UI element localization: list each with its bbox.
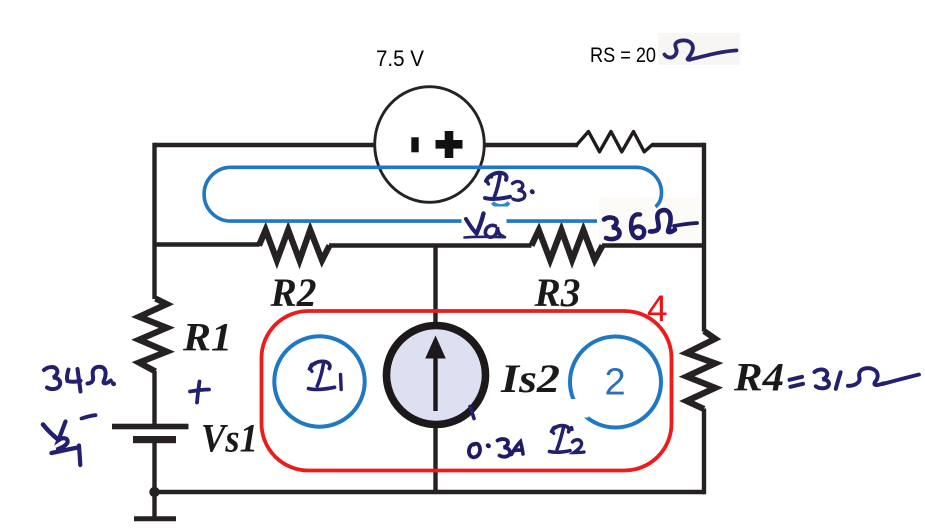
current source Is2 (387, 326, 486, 425)
wire right vertical lower (702, 409, 706, 495)
resistor R2 (259, 230, 330, 260)
svg-text:R3: R3 (534, 270, 581, 315)
handwritten V1 (bottom left) (43, 415, 96, 465)
svg-text:7.5 V: 7.5 V (376, 46, 424, 71)
svg-text:RS = 20: RS = 20 (590, 43, 656, 67)
wire right vertical upper (702, 143, 706, 332)
handwritten R4 = 31 ohm (right) (790, 368, 920, 389)
small blue arc remnant below I3 (493, 203, 510, 207)
svg-text:Vs1: Vs1 (201, 416, 258, 461)
blue mesh loop bottom line (231, 219, 597, 223)
wire bottom (152, 490, 704, 494)
junction node dot (149, 487, 159, 497)
wire left vertical (152, 143, 156, 299)
voltage source plus sign (436, 131, 463, 158)
handwritten tick near Is2 bottom (470, 407, 474, 419)
svg-text:2: 2 (605, 362, 626, 404)
svg-text:R4: R4 (733, 355, 784, 400)
handwritten I1 in mesh circle 1 (309, 361, 342, 389)
mesh circle 2 (blue) (570, 337, 661, 428)
handwritten I2 (550, 426, 585, 453)
ground (134, 516, 176, 521)
wire top (node between Vs source and RS) (155, 143, 705, 147)
svg-text:R1: R1 (182, 315, 232, 360)
handwritten 36 ohm (604, 210, 697, 239)
handwritten plus near battery (190, 382, 209, 403)
resistor R4 (687, 331, 716, 409)
white patch behind I3 (481, 170, 539, 212)
ground stub (152, 492, 156, 517)
resistor R3 (532, 230, 603, 260)
current source arrow head (425, 336, 446, 359)
handwritten Va underlined (465, 214, 506, 238)
wire left between R1 and battery (152, 371, 156, 425)
voltage source minus tick (411, 137, 418, 152)
battery Vs1 long plate (112, 424, 189, 430)
white patch over circle 2 lower-left (569, 399, 589, 418)
svg-text:R2: R2 (270, 270, 317, 315)
battery Vs1 short plate (133, 436, 176, 443)
current source arrow shaft (433, 355, 437, 411)
handwritten ohm after RS = 20 (665, 40, 737, 59)
resistor R1 (139, 299, 167, 372)
voltage source V 7.5V circle (375, 87, 485, 203)
wire middle horizontal (node a) (155, 245, 705, 246)
handwritten I3. (485, 173, 533, 200)
mesh circle 1 (blue) (274, 336, 364, 426)
blue mesh loop right cap hook (636, 167, 662, 207)
resistor RS (top right) (577, 132, 653, 152)
wire left between battery and bottom node (152, 442, 156, 492)
red supermesh loop (262, 311, 672, 471)
handwritten 34 ohm (left) (44, 367, 114, 392)
wire center branch vertical (433, 245, 437, 493)
handwritten 0.3A (469, 439, 523, 457)
blue mesh loop I3 top line (231, 166, 636, 170)
svg-text:Is2: Is2 (500, 356, 560, 401)
smudge behind 36 ohm (599, 197, 699, 240)
smudge behind RS ohm (658, 33, 740, 65)
blue mesh loop left cap (204, 167, 231, 221)
white patch behind Va (462, 207, 507, 241)
svg-text:4: 4 (647, 288, 668, 329)
